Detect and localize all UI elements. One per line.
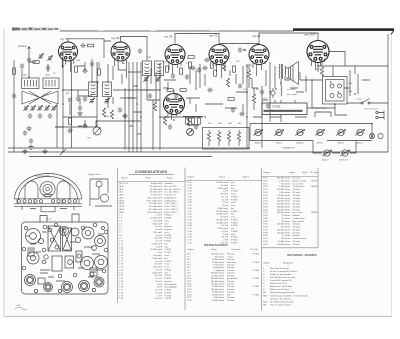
capacitor C3 xyxy=(12,93,16,98)
wire resistor group feed xyxy=(183,117,203,126)
wire stepped oscillator return xyxy=(55,121,141,127)
capacitor C28 xyxy=(138,48,142,53)
svg-text:6B7: 6B7 xyxy=(170,109,173,111)
drawing: chassis wiring squiggles xyxy=(26,232,104,281)
drawing: dial centre escutcheon xyxy=(40,181,55,196)
drawing: chassis socket/can 13 xyxy=(71,228,79,236)
svg-text:40ohms: 40ohms xyxy=(356,142,363,145)
svg-text:Antenne: Antenne xyxy=(17,45,28,48)
svg-text:P.O.: P.O. xyxy=(53,73,57,75)
capacitor CA8 trimmer bank xyxy=(23,105,28,111)
wire second heater row xyxy=(313,141,356,154)
wire mesh output stage xyxy=(249,64,275,110)
wire V1 pin leads xyxy=(62,58,74,73)
resistor R19 xyxy=(237,132,240,141)
table3 rows RESISTANCES suite xyxy=(263,177,318,246)
node J4 xyxy=(246,116,248,118)
svg-text:CA 8: CA 8 xyxy=(76,59,80,62)
capacitor C18 xyxy=(194,124,198,129)
potentiometer MD4 volume xyxy=(187,129,194,136)
capacitor C31 bypass xyxy=(78,105,82,110)
wire filter caps to chassis xyxy=(300,80,347,115)
drawing: gang condenser block xyxy=(48,226,72,251)
wire output cathode rail xyxy=(262,62,270,148)
capacitor C19 coupling V4 xyxy=(202,66,207,70)
wire filament chain bottom xyxy=(250,133,372,141)
wire oscillator coil tap xyxy=(22,62,57,148)
resistor R11 xyxy=(187,117,190,126)
drawing: chassis socket/can 6 xyxy=(79,281,90,292)
drawing: chassis extra parts xyxy=(25,226,106,292)
capacitor C17 RF filter xyxy=(168,124,172,129)
resistor R20 cathode V5 xyxy=(247,70,250,79)
resistor R8 AVC filter xyxy=(167,89,173,92)
resistor R24 xyxy=(192,118,195,124)
capacitor CA12 trimmer TMF1 xyxy=(104,98,109,104)
wire V4 pin leads xyxy=(213,61,225,78)
resistor R22 rectifier surge xyxy=(320,67,323,76)
transformer TMF2 primary can xyxy=(143,61,152,76)
node grid V5 xyxy=(244,49,246,51)
capacitor block MD11 8+8 uF xyxy=(323,77,348,105)
resistor ballast F3 heater shunt xyxy=(295,129,305,135)
capacitor C27 interstage xyxy=(80,43,85,47)
drawing: front controls row xyxy=(17,200,76,203)
coil field excitation xyxy=(280,83,283,96)
svg-text:99M: 99M xyxy=(218,123,222,125)
node J1 xyxy=(62,89,64,91)
wire B+ feed lines xyxy=(270,112,331,122)
svg-text:10M: 10M xyxy=(228,123,232,125)
svg-text:C24: C24 xyxy=(263,98,266,100)
drawing: chassis socket/can 4 xyxy=(44,283,53,292)
svg-text:FILAMENTS: FILAMENTS xyxy=(282,147,295,150)
wire plate V2 to IF2 xyxy=(121,37,148,61)
transformer box CF-MEL xyxy=(262,103,307,115)
resistor R32 plate feed xyxy=(228,98,234,101)
svg-text:AVC: AVC xyxy=(66,92,70,95)
capacitor C25 electrolytic xyxy=(271,88,277,98)
wire bus group centre (parallel group) xyxy=(125,62,153,152)
drawing: chassis socket/can 10 xyxy=(95,236,106,247)
resistor R13 xyxy=(222,62,225,71)
wire V5 pin leads xyxy=(253,61,265,76)
svg-text:my 6A7: my 6A7 xyxy=(111,36,122,40)
capacitor CA13 trimmer TMF2 xyxy=(143,76,148,82)
drawing: bracket wheel xyxy=(101,194,109,202)
svg-text:90ohms: 90ohms xyxy=(316,143,323,145)
svg-text:R 7: R 7 xyxy=(186,63,189,65)
wire plate V3 to V4 xyxy=(175,34,219,44)
drawing: chassis small parts xyxy=(22,223,108,278)
capacitor C36 antenna series xyxy=(20,63,24,68)
resistor R25 xyxy=(198,118,201,124)
svg-text:G.O.: G.O. xyxy=(44,94,48,96)
tube V6 25Z5 (rectifier) xyxy=(307,41,329,63)
resistor R33 antenna shunt xyxy=(33,61,39,64)
variable capacitor CA1 tuning gang xyxy=(93,127,101,135)
svg-text:my 78: my 78 xyxy=(60,37,69,41)
table frame verticals xyxy=(118,168,319,311)
capacitor C35 xyxy=(148,93,152,98)
svg-text:exc. 2650: exc. 2650 xyxy=(287,89,295,91)
wire left input rail xyxy=(13,60,15,152)
wire plate V1 to V2 grid xyxy=(68,39,111,44)
tube V7 6B7 (2nd det/AVC) xyxy=(164,94,185,115)
svg-text:CA 9: CA 9 xyxy=(23,74,27,77)
svg-text:CONDENSATEURS: CONDENSATEURS xyxy=(135,170,168,174)
transformer T2 output secondary xyxy=(284,66,287,76)
capacitor C32 xyxy=(82,124,87,128)
resistor R16 xyxy=(207,132,210,141)
lamp dial xyxy=(378,133,383,138)
drawing: front panel band xyxy=(14,199,82,207)
capacitor C4 xyxy=(28,113,32,118)
svg-text:R22: R22 xyxy=(316,69,319,71)
drawing: chassis shaft stubs xyxy=(40,214,79,222)
svg-text:Inter.: Inter. xyxy=(357,98,362,101)
wire plate V5 to rectifier xyxy=(259,33,318,44)
wire mesh AF stage xyxy=(216,60,247,114)
capacitor C1 coupling xyxy=(38,53,43,59)
wire antenna lead-in xyxy=(28,47,31,78)
resistor R2 cathode V1 xyxy=(75,66,78,72)
wire filament chain top xyxy=(250,124,372,141)
resistor ballast F6 heater shunt xyxy=(355,129,365,135)
drawing: dome cutout left xyxy=(25,181,38,199)
wire mesh IF stage xyxy=(142,68,176,102)
resistor ballast F7 xyxy=(322,150,332,156)
ground cathode xyxy=(67,128,72,133)
drawing: chassis socket/can 2 xyxy=(27,252,39,264)
drawing: chassis socket/can 8 xyxy=(95,256,108,269)
capacitor CA10 padding G.O. xyxy=(37,105,42,111)
diagonal chassis tag xyxy=(60,149,66,155)
capacitor C15 xyxy=(190,66,195,70)
wire chassis bus main xyxy=(8,151,388,153)
capacitor CA9 padding P.O. xyxy=(30,105,35,111)
drawing: chassis socket/can 12 xyxy=(60,227,69,236)
svg-text:4M7: 4M7 xyxy=(238,123,242,125)
svg-text:MATERIEL DIVERS: MATERIEL DIVERS xyxy=(287,253,316,257)
resistor R3 screen xyxy=(98,69,101,75)
wire AVC return xyxy=(55,90,134,127)
wire oscillator rail xyxy=(96,62,98,126)
capacitor C38 wave trap xyxy=(23,130,27,135)
wire rectifier output right xyxy=(318,52,388,67)
wire right-hand mains rail xyxy=(387,34,389,152)
svg-text:RESISTANCES: RESISTANCES xyxy=(204,243,227,247)
node J2 xyxy=(96,120,98,122)
wire screen bypass drops xyxy=(70,98,85,126)
resistor R14 plate load xyxy=(233,66,236,72)
resistor R4 oscillator grid xyxy=(102,108,105,117)
drawing: chassis hatch rects xyxy=(28,248,97,284)
resistor R21 bias xyxy=(252,94,255,103)
svg-text:(à l'arrière du châssis): (à l'arrière du châssis) xyxy=(270,297,291,300)
resistor R28 xyxy=(69,118,72,124)
svg-text:25 Z5: 25 Z5 xyxy=(46,219,52,221)
capacitor C8 grid xyxy=(90,61,94,66)
ground band switch xyxy=(22,149,27,154)
drawing: chassis socket/can 9 xyxy=(81,257,94,270)
capacitor CA11 trimmer TMF1 xyxy=(89,98,94,104)
node J5 xyxy=(317,65,319,67)
svg-text:C13: C13 xyxy=(164,62,167,64)
resistor R15 xyxy=(226,78,229,87)
svg-text:90ohms: 90ohms xyxy=(337,143,344,145)
tube V5 43 (output) xyxy=(249,45,269,65)
capacitor CA14 trimmer TMF2 xyxy=(155,76,160,82)
svg-text:CA 10: CA 10 xyxy=(45,74,50,77)
svg-text:45ohms: 45ohms xyxy=(322,159,329,162)
svg-text:bob. mobile: bob. mobile xyxy=(287,94,297,96)
drawing: IF can rectangles xyxy=(52,251,82,271)
coil L1 antenna P.O. xyxy=(22,78,40,89)
resistor R23 hum bucking xyxy=(186,118,189,124)
svg-text:Alignement HF: Alignement HF xyxy=(36,175,50,178)
resistor ballast F2 heater shunt xyxy=(274,129,284,135)
wire V6 pin leads xyxy=(312,59,325,71)
svg-text:Support cadran: Support cadran xyxy=(88,173,100,176)
wire bus cross ties xyxy=(129,72,141,134)
capacitor C11 osc xyxy=(118,107,122,112)
drawing: chassis socket/can 5 xyxy=(62,282,73,293)
capacitor C30 bypass xyxy=(68,97,72,102)
wire mesh detector stage xyxy=(186,64,223,112)
wire V7 pin leads xyxy=(168,90,180,120)
capacitor C9 screen bypass xyxy=(76,96,80,101)
drawing: chassis outline (top view) xyxy=(22,222,109,294)
wire detector rail xyxy=(246,64,248,148)
capacitor C23 xyxy=(239,112,244,116)
transformer TMF1 secondary can xyxy=(103,82,112,97)
resistor R26 stopper xyxy=(88,44,94,47)
svg-text:my 75: my 75 xyxy=(209,34,218,38)
loudspeaker HP cone xyxy=(286,62,299,85)
resistor ballast F8 xyxy=(340,150,350,156)
wire mesh rectifier stage xyxy=(300,62,370,96)
resistor R31 xyxy=(153,102,156,111)
resistor bank R16-R19 (divider) xyxy=(203,128,250,150)
svg-text:700: 700 xyxy=(249,65,252,67)
table1 rows CONDENSATEURS xyxy=(119,182,181,300)
tube V3 78 (IF amplifier) xyxy=(165,45,185,65)
transformer T2 output primary xyxy=(279,64,283,79)
wire mesh speaker feed xyxy=(281,76,304,103)
node J3 xyxy=(159,116,161,118)
switch Inter (mains) xyxy=(347,99,388,105)
drawing: chassis socket/can 3 xyxy=(25,275,36,286)
resistor R30 xyxy=(214,70,217,76)
resistor R9 AVC filter xyxy=(180,89,186,92)
svg-text:680ohms: 680ohms xyxy=(296,143,304,145)
resistor ballast F5 heater shunt xyxy=(336,129,346,135)
capacitor C26 tone xyxy=(266,103,270,108)
svg-text:250: 250 xyxy=(208,123,211,125)
svg-text:2,650 oh 3: 2,650 oh 3 xyxy=(338,160,349,162)
svg-text:R14: R14 xyxy=(236,61,239,63)
svg-text:Prise de courant: Prise de courant xyxy=(364,108,378,111)
resistor R29 IF grid xyxy=(189,62,192,68)
resistor R17 xyxy=(217,132,220,141)
svg-text:MD1Condensateur double 8 + 8 m: MD1Condensateur double 8 + 8 mF, 450 vol… xyxy=(263,294,308,297)
ground screen bypass xyxy=(77,111,82,116)
capacitor C34 xyxy=(204,58,209,62)
transformer TMF2 secondary can xyxy=(155,61,164,76)
svg-text:C 2: C 2 xyxy=(90,59,93,61)
capacitor C2 xyxy=(47,55,52,61)
svg-text:C19: C19 xyxy=(222,58,225,60)
svg-text:20M: 20M xyxy=(105,116,109,118)
svg-text:osc: osc xyxy=(122,63,125,65)
tube V2 6A7 (converter) xyxy=(111,42,130,61)
table2b rows RESISTANCES xyxy=(187,253,260,302)
wire band-switch crossover xyxy=(22,91,58,104)
capacitor C37 xyxy=(46,65,50,70)
resistor ballast F4 heater shunt xyxy=(315,129,325,135)
drawing: bracket detail xyxy=(90,179,112,206)
drawing: dome cutout right xyxy=(57,181,70,199)
resistor ballast F1 heater shunt xyxy=(253,129,263,135)
wire mesh converter stage xyxy=(104,44,126,108)
capacitor CA5 antenna trimmer xyxy=(27,57,31,62)
wire AVC bus xyxy=(63,89,160,91)
svg-text:70ohms: 70ohms xyxy=(275,143,282,145)
capacitor C39 xyxy=(29,138,33,143)
capacitor C14 xyxy=(185,74,189,79)
capacitor C5 xyxy=(38,113,42,118)
lamp pilot xyxy=(369,133,374,138)
capacitor C6 xyxy=(48,113,52,118)
transformer TMF1 primary can xyxy=(89,82,98,97)
capacitor C22 xyxy=(231,107,235,112)
junction dots scattered xyxy=(28,63,373,127)
capacitor C13 xyxy=(171,73,175,78)
wire screen rail V1 xyxy=(71,61,73,148)
resistor R6 grid V3 xyxy=(166,66,169,72)
capacitor C12 osc coupling xyxy=(122,114,127,118)
wire chassis bus lower xyxy=(29,156,212,158)
resistor R27 xyxy=(188,56,194,59)
wire chassis bus upper xyxy=(8,147,250,149)
tube V1 78 (RF amplifier) xyxy=(59,42,78,61)
drawing: gang condenser dome front view xyxy=(15,174,82,200)
table4 rows MATERIEL DIVERS xyxy=(263,267,308,307)
drawing: squiggle mark xyxy=(15,307,27,310)
coil L2 antenna G.O. xyxy=(43,78,59,89)
drawing: bracket hub xyxy=(96,181,102,187)
label SPEAKER-PHILCO xyxy=(264,110,303,112)
svg-text:680ohms: 680ohms xyxy=(254,143,262,145)
capacitor CA6 trimmer xyxy=(44,105,49,111)
connector mains plug xyxy=(376,111,384,120)
capacitor C29 coupling V5 xyxy=(238,47,242,52)
drawing: chassis socket/can 11 xyxy=(82,227,94,239)
ground tuning return xyxy=(42,149,47,154)
junction dots xyxy=(62,147,64,149)
tube V4 75 (detector/AF) xyxy=(209,45,229,65)
drawing: chassis socket/can 7 xyxy=(94,277,104,287)
capacitor C16 AVC xyxy=(174,93,178,98)
wire V3 pin leads xyxy=(169,61,181,74)
capacitor C33 xyxy=(197,67,201,72)
capacitor C20 xyxy=(238,83,242,88)
resistor R18 xyxy=(227,132,230,141)
capacitor C24 xyxy=(260,89,264,94)
resistor R5 oscillator anode xyxy=(110,110,113,119)
svg-text:my 78: my 78 xyxy=(164,35,173,39)
capacitor C10 bypass xyxy=(83,96,87,101)
wire B+ distribution xyxy=(160,108,327,117)
wire mesh RF stage xyxy=(78,60,99,82)
drawing: dial drive bracket xyxy=(22,206,74,212)
ground wave trap xyxy=(28,145,33,150)
resistor R7 cathode V3 xyxy=(180,68,183,74)
table2 rows CONDENSATEURS suite xyxy=(187,181,238,244)
resistor R10 diode load xyxy=(163,116,166,125)
resistor R12 grid leak xyxy=(211,62,214,68)
wire V2 pin leads xyxy=(115,58,127,79)
svg-text:C20: C20 xyxy=(243,89,246,91)
wire IF secondary rail xyxy=(159,64,161,150)
svg-text:CF-MEL: CF-MEL xyxy=(272,106,282,109)
capacitor C21 xyxy=(207,88,212,92)
wire plate V4 to V5 grid xyxy=(219,44,259,45)
ground antenna circuit xyxy=(26,126,31,131)
drawing: chassis socket/can 1 xyxy=(26,229,41,244)
node bus tie points xyxy=(128,71,141,112)
svg-text:R21: R21 xyxy=(256,89,259,91)
table frame horizontals xyxy=(118,177,319,248)
capacitor C7 cathode bypass xyxy=(82,69,87,73)
wire RF cathode rail xyxy=(62,48,64,152)
resistor R1 xyxy=(13,68,16,74)
capacitor CA7 trimmer xyxy=(51,105,56,111)
